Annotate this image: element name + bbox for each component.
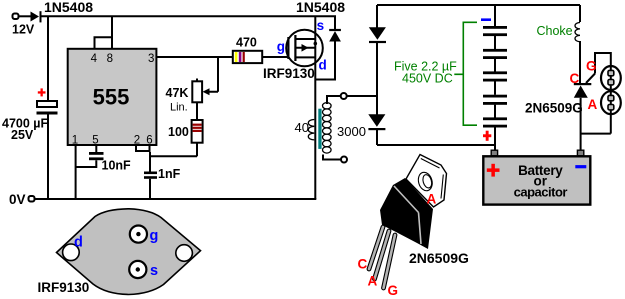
- diode D1 1N5408: [31, 0, 94, 22]
- inductor L1 choke: [537, 5, 581, 83]
- capacitor C3 1nF: [144, 152, 181, 199]
- resistor R1 470: [233, 35, 262, 63]
- wire pin 3 to gate: [157, 56, 289, 58]
- svg-text:0V: 0V: [9, 192, 26, 207]
- capacitor C2 10nF: [76, 145, 131, 172]
- transformer T1 core: [318, 109, 321, 149]
- wire top rail left: [41, 15, 336, 17]
- svg-text:40: 40: [295, 120, 309, 135]
- svg-text:A: A: [588, 97, 598, 112]
- wire rectifier chain: [377, 5, 496, 145]
- svg-text:470: 470: [236, 35, 257, 49]
- wire pin 4 jog: [95, 37, 113, 48]
- secondary bottom tap terminal: [341, 157, 347, 163]
- spark gap electrode bottom: [601, 91, 621, 133]
- svg-text:C: C: [358, 257, 368, 272]
- secondary top tap wire: [327, 96, 341, 104]
- svg-text:555: 555: [93, 85, 130, 110]
- IC U1 555: [68, 49, 157, 147]
- svg-text:3: 3: [148, 53, 154, 65]
- spark gap electrode top: [601, 66, 621, 111]
- svg-text:Lin.: Lin.: [170, 102, 188, 114]
- black plastic body: [380, 178, 433, 249]
- transformer T1 primary 40 turns: [295, 120, 315, 140]
- wire pin 1 to 0V: [75, 145, 77, 199]
- wire cap bank to battery post: [494, 145, 496, 151]
- mosfet Q1 IRF9130 symbol: [263, 16, 327, 199]
- green bracket: [454, 22, 477, 125]
- svg-text:1nF: 1nF: [158, 167, 181, 181]
- diode D3: [369, 27, 386, 43]
- resistor R3 100: [168, 120, 203, 156]
- svg-text:C: C: [570, 71, 580, 86]
- leads C A G: [369, 227, 395, 288]
- svg-text:d: d: [319, 58, 327, 73]
- capacitor bank C4 five 2.2uF: [481, 5, 507, 151]
- diode D4: [368, 114, 385, 130]
- battery B1: [483, 150, 590, 204]
- secondary top tap terminal: [341, 93, 347, 99]
- wire pin 8 to rail: [111, 16, 113, 48]
- capacitor C1 4700uF: [2, 88, 58, 141]
- svg-text:g: g: [150, 228, 159, 244]
- svg-text:G: G: [388, 283, 399, 298]
- diode D2 1N5408 flyback: [296, 0, 345, 80]
- package drawing IRF9130 TO-3: [38, 209, 201, 295]
- svg-text:1N5408: 1N5408: [296, 0, 345, 15]
- svg-text:IRF9130: IRF9130: [263, 66, 315, 81]
- terminal 0V: [9, 192, 35, 207]
- svg-text:47K: 47K: [166, 86, 189, 100]
- svg-text:1: 1: [72, 135, 78, 147]
- wire junction to pot wiper: [206, 57, 218, 92]
- secondary bottom tap wire: [323, 155, 341, 160]
- svg-text:3000: 3000: [337, 124, 366, 139]
- svg-text:A: A: [368, 274, 378, 289]
- transformer T1 secondary 3000 turns: [323, 103, 366, 153]
- svg-text:25V: 25V: [11, 128, 34, 142]
- wire electrodes to anode line: [581, 133, 611, 135]
- svg-text:8: 8: [107, 53, 113, 65]
- svg-text:4: 4: [91, 53, 98, 65]
- terminal 12V input: [12, 14, 35, 37]
- svg-text:5: 5: [92, 135, 98, 147]
- metal tab with hole: [406, 155, 447, 208]
- svg-text:g: g: [277, 39, 285, 54]
- svg-text:s: s: [317, 18, 325, 33]
- wire right top rail: [377, 4, 580, 6]
- label Five 2.2uF 450V DC: [394, 60, 457, 86]
- svg-text:d: d: [74, 235, 83, 251]
- svg-text:IRF9130: IRF9130: [38, 280, 90, 295]
- wire pin2 pin6 link: [136, 145, 197, 156]
- pot wiper arrow: [203, 88, 210, 95]
- svg-text:450V DC: 450V DC: [402, 72, 453, 86]
- svg-text:G: G: [586, 59, 597, 74]
- svg-text:12V: 12V: [12, 23, 35, 37]
- svg-text:2: 2: [134, 135, 140, 147]
- svg-text:100: 100: [168, 125, 189, 139]
- svg-text:6: 6: [146, 135, 152, 147]
- svg-text:s: s: [150, 263, 158, 279]
- svg-text:10nF: 10nF: [102, 158, 132, 172]
- svg-text:capacitor: capacitor: [514, 185, 568, 200]
- wire left rail: [47, 16, 49, 199]
- svg-text:1N5408: 1N5408: [44, 0, 93, 15]
- package drawing 2N6509G TO-220: [358, 155, 470, 299]
- svg-text:2N6509G: 2N6509G: [525, 101, 583, 116]
- wire tap to rectifier: [347, 95, 377, 97]
- svg-text:A: A: [427, 192, 437, 207]
- svg-text:Choke: Choke: [537, 24, 573, 38]
- SCR Q2 2N6509G symbol: [525, 53, 611, 151]
- wire bottom rail: [35, 198, 317, 200]
- svg-text:2N6509G: 2N6509G: [409, 250, 469, 266]
- potentiometer R2 47K: [166, 79, 203, 121]
